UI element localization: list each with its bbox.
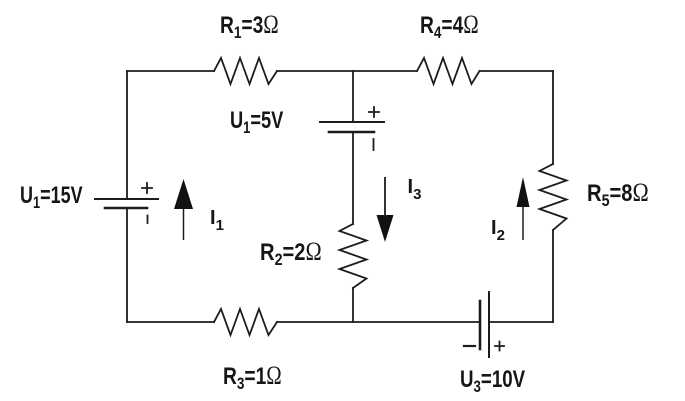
label R5=8ohm <box>587 179 649 210</box>
label R4=4ohm <box>420 11 479 43</box>
svg-text:U1=15V: U1=15V <box>20 183 83 213</box>
battery U3 plus sign <box>495 342 504 351</box>
wire top-left segment <box>127 70 214 72</box>
label R3=1ohm <box>223 362 282 394</box>
wire bottom-middle segment <box>277 321 480 323</box>
battery U1(15V) plus sign <box>142 183 152 193</box>
label R2=2ohm <box>260 238 322 269</box>
label R1=3ohm <box>220 11 279 43</box>
battery U1(15V) minus tick <box>147 216 149 224</box>
wire right side lower <box>552 230 554 322</box>
battery U3 minus sign <box>464 345 475 347</box>
label I3 <box>408 176 422 203</box>
resistor R2 <box>340 224 367 288</box>
resistor R3 <box>214 309 277 335</box>
wire left side lower <box>126 208 128 322</box>
current arrow I1 <box>174 179 193 240</box>
resistor R5 <box>540 164 567 230</box>
wire bottom-left segment <box>127 321 214 323</box>
svg-text:U1=5V: U1=5V <box>230 107 284 138</box>
current arrow I2 <box>517 177 530 240</box>
svg-text:R1=3Ω: R1=3Ω <box>220 11 279 43</box>
battery U1(5V) negative plate <box>329 131 374 134</box>
wire top-right segment <box>480 70 554 72</box>
label I2 <box>491 217 505 244</box>
svg-text:R2=2Ω: R2=2Ω <box>260 238 322 269</box>
svg-text:R4=4Ω: R4=4Ω <box>420 11 479 43</box>
wire middle branch between battery and R2 <box>352 132 354 224</box>
wire right side upper <box>552 71 554 164</box>
wire left side upper <box>126 71 128 199</box>
resistor R4 <box>417 58 480 84</box>
wire top-middle segment <box>277 70 417 72</box>
battery U3 positive plate <box>488 292 490 357</box>
svg-text:R5=8Ω: R5=8Ω <box>587 179 649 210</box>
battery U1(15V) negative plate <box>105 207 147 210</box>
label U3=10V <box>460 366 526 397</box>
wire bottom-right segment <box>489 321 553 323</box>
svg-text:U3=10V: U3=10V <box>460 366 526 397</box>
label U1=5V <box>230 107 284 138</box>
label I1 <box>210 207 224 234</box>
battery U3 negative plate <box>479 301 482 349</box>
current arrow I3 <box>377 177 394 242</box>
svg-text:R3=1Ω: R3=1Ω <box>223 362 282 394</box>
wire middle branch upper <box>352 71 354 122</box>
battery U1(5V) plus sign <box>369 107 379 117</box>
battery U1(15V) positive plate <box>95 198 158 200</box>
wire middle branch lower <box>352 288 354 322</box>
battery U1(5V) minus tick <box>373 139 375 150</box>
resistor R1 <box>214 58 277 84</box>
label U1=15V <box>20 183 83 213</box>
battery U1(5V) positive plate <box>320 121 384 123</box>
